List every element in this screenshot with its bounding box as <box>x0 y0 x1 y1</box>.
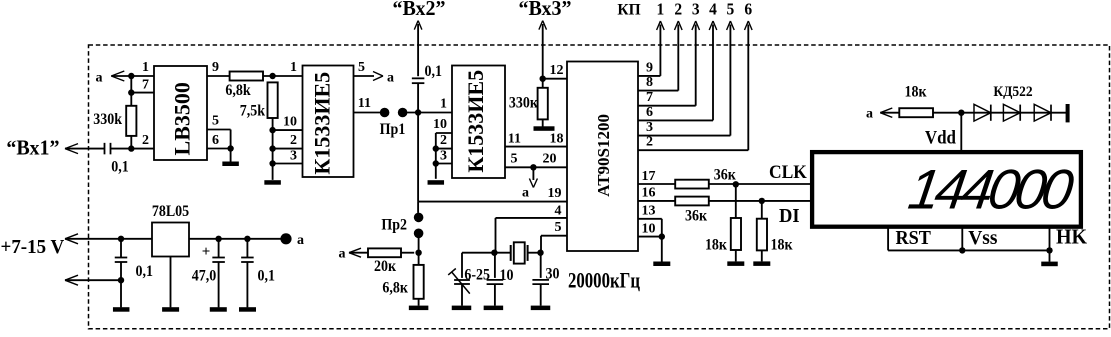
svg-text:3: 3 <box>440 149 447 164</box>
svg-text:78L05: 78L05 <box>152 203 189 220</box>
svg-text:a: a <box>387 71 394 86</box>
svg-text:6: 6 <box>744 0 752 19</box>
svg-text:0,1: 0,1 <box>425 63 442 80</box>
svg-text:6,8k: 6,8k <box>225 82 251 99</box>
svg-text:3: 3 <box>290 149 297 164</box>
svg-text:HK: HK <box>1056 226 1087 249</box>
svg-text:КП: КП <box>617 1 641 18</box>
svg-text:144000: 144000 <box>905 158 1077 221</box>
svg-text:47,0: 47,0 <box>192 268 217 285</box>
svg-text:+: + <box>202 244 211 260</box>
svg-text:10: 10 <box>642 222 656 237</box>
svg-text:КД522: КД522 <box>993 83 1032 100</box>
svg-text:20к: 20к <box>374 258 396 275</box>
svg-text:8: 8 <box>646 75 653 90</box>
svg-text:2: 2 <box>142 133 149 148</box>
svg-text:5: 5 <box>727 0 735 19</box>
svg-text:2: 2 <box>440 133 447 148</box>
svg-text:13: 13 <box>642 203 656 218</box>
svg-text:30: 30 <box>546 266 560 283</box>
svg-text:11: 11 <box>358 96 371 111</box>
svg-text:5: 5 <box>555 220 562 235</box>
svg-text:18к: 18к <box>904 84 926 101</box>
svg-text:4: 4 <box>709 0 717 19</box>
svg-text:10: 10 <box>500 267 514 284</box>
svg-text:18к: 18к <box>705 237 727 254</box>
svg-text:3: 3 <box>692 0 700 19</box>
svg-text:20000кГц: 20000кГц <box>568 268 640 293</box>
svg-text:RST: RST <box>896 227 932 249</box>
svg-text:+7-15 V: +7-15 V <box>1 236 65 258</box>
svg-text:36к: 36к <box>714 167 736 184</box>
svg-text:330к: 330к <box>509 95 538 112</box>
svg-text:2: 2 <box>290 133 297 148</box>
svg-text:0,1: 0,1 <box>136 263 153 280</box>
svg-text:1: 1 <box>142 60 149 75</box>
svg-text:Vss: Vss <box>968 226 997 249</box>
svg-text:a: a <box>96 71 103 86</box>
svg-text:16: 16 <box>642 186 656 201</box>
svg-text:12: 12 <box>550 63 564 78</box>
svg-text:0,1: 0,1 <box>111 159 128 176</box>
svg-text:4: 4 <box>555 203 562 218</box>
svg-text:10: 10 <box>283 115 297 130</box>
svg-text:5: 5 <box>511 151 518 166</box>
svg-text:AT90S1200: AT90S1200 <box>594 114 613 197</box>
svg-text:1: 1 <box>290 60 297 75</box>
svg-text:a: a <box>522 186 529 201</box>
svg-text:18к: 18к <box>771 237 793 254</box>
svg-text:17: 17 <box>642 169 656 184</box>
svg-text:Пр2: Пр2 <box>381 217 407 234</box>
svg-text:11: 11 <box>508 132 521 147</box>
svg-text:0,1: 0,1 <box>258 268 275 285</box>
svg-text:5: 5 <box>212 114 219 129</box>
svg-text:“Вх1”: “Вх1” <box>6 135 59 160</box>
svg-text:9: 9 <box>212 60 219 75</box>
svg-text:a: a <box>866 106 873 121</box>
svg-text:2: 2 <box>674 0 682 19</box>
svg-text:19: 19 <box>548 186 562 201</box>
svg-text:К1533ИЕ5: К1533ИЕ5 <box>310 72 335 175</box>
svg-text:LB3500: LB3500 <box>169 82 194 155</box>
svg-text:“Вх3”: “Вх3” <box>518 0 571 20</box>
svg-text:330k: 330k <box>93 111 122 128</box>
svg-text:“Вх2”: “Вх2” <box>392 0 445 20</box>
svg-text:CLK: CLK <box>769 161 808 182</box>
svg-text:6-25: 6-25 <box>464 267 490 284</box>
svg-text:2: 2 <box>646 135 653 150</box>
svg-text:Vdd: Vdd <box>925 127 956 148</box>
svg-text:a: a <box>339 247 346 262</box>
svg-text:К1533ИЕ5: К1533ИЕ5 <box>463 70 488 173</box>
svg-text:6: 6 <box>646 105 653 120</box>
svg-text:36к: 36к <box>685 208 707 225</box>
svg-text:7: 7 <box>142 78 149 93</box>
svg-text:6,8к: 6,8к <box>382 280 408 297</box>
svg-text:7: 7 <box>646 90 653 105</box>
svg-text:3: 3 <box>646 120 653 135</box>
svg-text:6: 6 <box>212 133 219 148</box>
svg-text:1: 1 <box>440 97 447 112</box>
svg-text:9: 9 <box>646 60 653 75</box>
svg-text:20: 20 <box>543 152 557 167</box>
svg-text:Пр1: Пр1 <box>380 121 406 138</box>
svg-text:7,5k: 7,5k <box>240 103 266 120</box>
svg-text:1: 1 <box>657 0 665 19</box>
svg-text:18: 18 <box>550 132 564 147</box>
svg-text:DI: DI <box>779 205 800 227</box>
svg-text:5: 5 <box>358 60 365 75</box>
svg-text:a: a <box>297 233 304 248</box>
svg-text:10: 10 <box>433 117 447 132</box>
